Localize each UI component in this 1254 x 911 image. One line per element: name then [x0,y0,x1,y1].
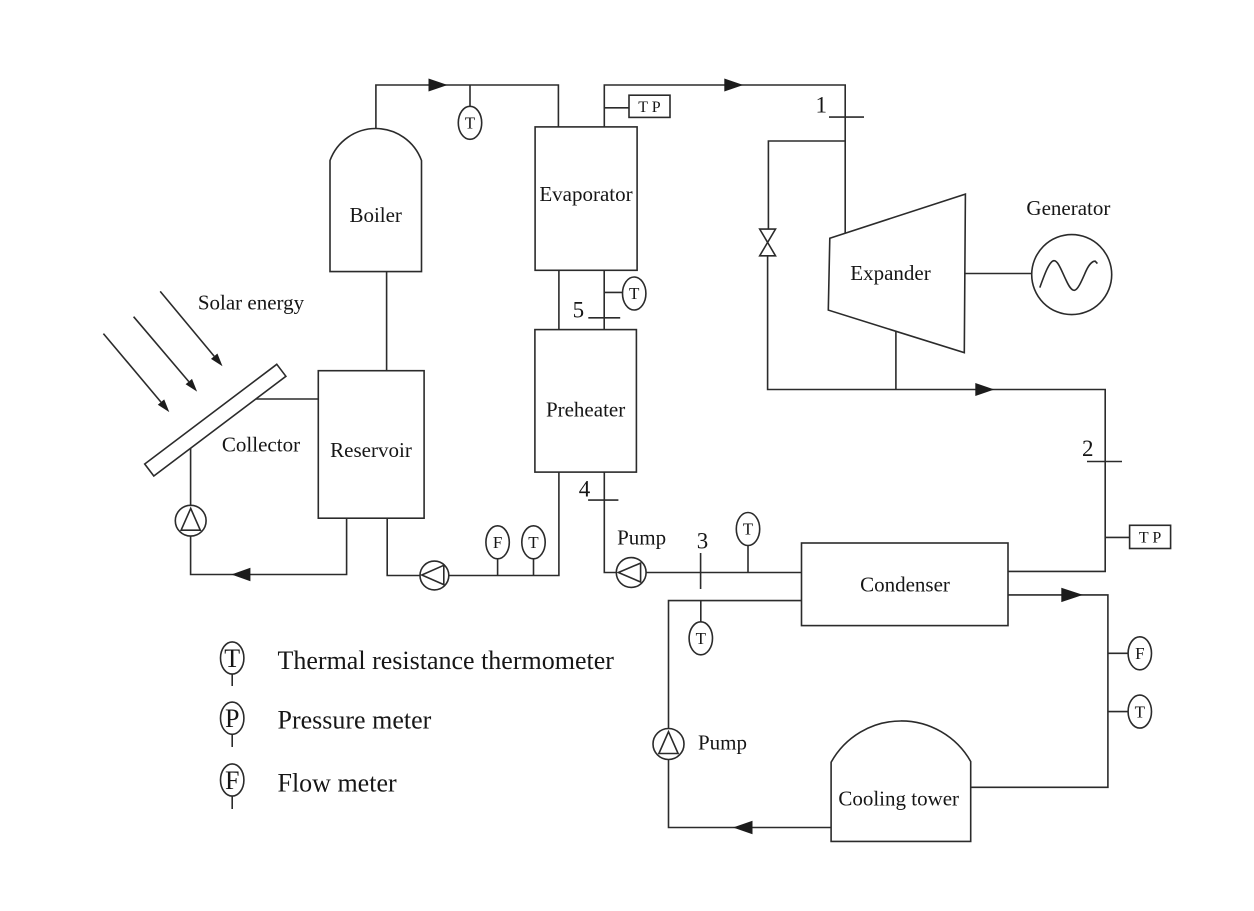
svg-text:F: F [1135,644,1144,663]
node 1 tick [829,116,864,118]
stub to TP box 1 [604,107,629,109]
svg-text:Pressure meter: Pressure meter [278,706,432,735]
thermometer T (solar loop) [522,526,545,559]
reservoir [318,371,424,519]
node 4 tick [588,499,618,501]
shaft expander to generator [964,273,1032,275]
flow arrow evaporator to expander [724,79,743,92]
legend pressure symbol [221,702,244,747]
svg-text:1: 1 [815,93,827,118]
thermometer T (boiler outlet) [458,106,481,139]
thermometer T (evaporator inlet) [623,277,646,310]
node 5 tick [588,317,620,319]
pipe evaporator-preheater left [558,270,560,329]
TP box 2 [1130,525,1171,548]
node 3 tick [700,553,702,589]
svg-text:Solar energy: Solar energy [198,291,305,315]
wire boiler top to evaporator inlet [376,85,559,130]
svg-text:Collector: Collector [222,433,300,457]
wire cooling tower out through pump to condenser [669,601,832,828]
svg-text:Expander: Expander [850,261,930,285]
svg-text:F: F [225,766,239,795]
svg-text:T: T [743,520,754,539]
stub to TP box 2 [1105,536,1129,538]
svg-text:Cooling tower: Cooling tower [838,786,959,810]
pipe evaporator-preheater right [603,270,605,329]
legend thermometer symbol [221,642,244,686]
flow meter F (solar loop) [486,526,509,559]
svg-text:4: 4 [579,477,591,502]
generator sine wave [1040,261,1098,291]
valve [760,229,776,256]
thermometer T stub (evaporator inlet) [604,291,622,293]
pump ORC [616,558,646,588]
flow meter F stem (solar loop) [497,559,499,576]
solar ray arrow 1 [160,291,222,366]
wire bypass branch to valve [768,141,845,229]
wire preheater outlet through pump 2 to condenser [604,472,801,572]
svg-text:5: 5 [573,298,585,323]
generator circle [1032,235,1112,315]
thermometer T (condenser water in) [689,622,712,655]
preheater [535,330,637,473]
svg-text:T P: T P [638,99,660,116]
wire expander exhaust down [895,331,897,389]
flow arrow condenser to cooling loop [1061,588,1083,602]
flow arrow cooling tower outlet [733,821,753,835]
pump reservoir loop [420,561,449,590]
svg-text:Evaporator: Evaporator [539,182,632,206]
svg-text:Reservoir: Reservoir [330,438,412,462]
solar ray arrow 3 [103,334,169,413]
svg-text:Boiler: Boiler [349,203,402,227]
svg-text:3: 3 [697,528,709,553]
flow arrow boiler to evaporator [429,79,448,92]
thermometer T (cooling) [1128,695,1151,728]
svg-text:Generator: Generator [1026,196,1110,220]
svg-text:2: 2 [1082,436,1094,461]
TP box 1 [629,95,670,117]
pipe boiler to reservoir [386,272,388,371]
cooling tower [831,721,971,841]
collector panel [145,364,286,476]
wire reservoir bottom to collector loop [191,448,347,574]
svg-text:T P: T P [1139,530,1161,547]
svg-text:T: T [224,644,240,673]
pump collector loop [175,505,206,536]
svg-text:P: P [225,704,239,733]
svg-text:T: T [528,533,539,552]
condenser [802,543,1009,626]
wire evaporator outlet to node 1 and expander [604,85,845,233]
pump cooling loop [653,729,684,760]
svg-text:Pump: Pump [698,731,747,755]
svg-text:F: F [493,533,502,552]
wire preheater bottom-left to reservoir [387,472,559,575]
thermometer T stub (cooling) [1108,711,1128,713]
svg-text:Condenser: Condenser [860,573,950,597]
svg-text:T: T [629,284,640,303]
flow arrow expander exhaust [975,383,994,396]
solar ray arrow 2 [134,317,198,392]
thermometer T stem (condenser refrigerant in) [747,546,749,573]
thermometer T stem (solar loop) [533,559,535,576]
flow meter F (cooling) [1128,637,1151,670]
svg-text:T: T [1135,702,1146,721]
svg-text:T: T [465,114,476,133]
svg-text:Thermal resistance thermometer: Thermal resistance thermometer [278,646,615,675]
wire collector to reservoir [256,398,318,400]
svg-text:T: T [696,629,707,648]
svg-text:Preheater: Preheater [546,398,625,422]
flow arrow collector return [231,568,250,581]
node 2 tick [1087,461,1122,463]
expander [828,194,965,353]
wire condenser cooling outlet to cooling tower [971,595,1108,787]
thermometer T stem (condenser water in) [700,601,702,622]
legend flow symbol [221,764,244,809]
thermometer T stem (boiler outlet) [469,85,471,107]
thermometer T (condenser refrigerant in) [736,513,759,546]
flow meter F stub (cooling) [1108,652,1128,654]
boiler B [330,129,422,272]
wire valve down and across to condenser inlet [768,256,1106,572]
evaporator [535,127,637,270]
svg-text:Flow meter: Flow meter [278,769,397,798]
svg-text:Pump: Pump [617,526,666,550]
